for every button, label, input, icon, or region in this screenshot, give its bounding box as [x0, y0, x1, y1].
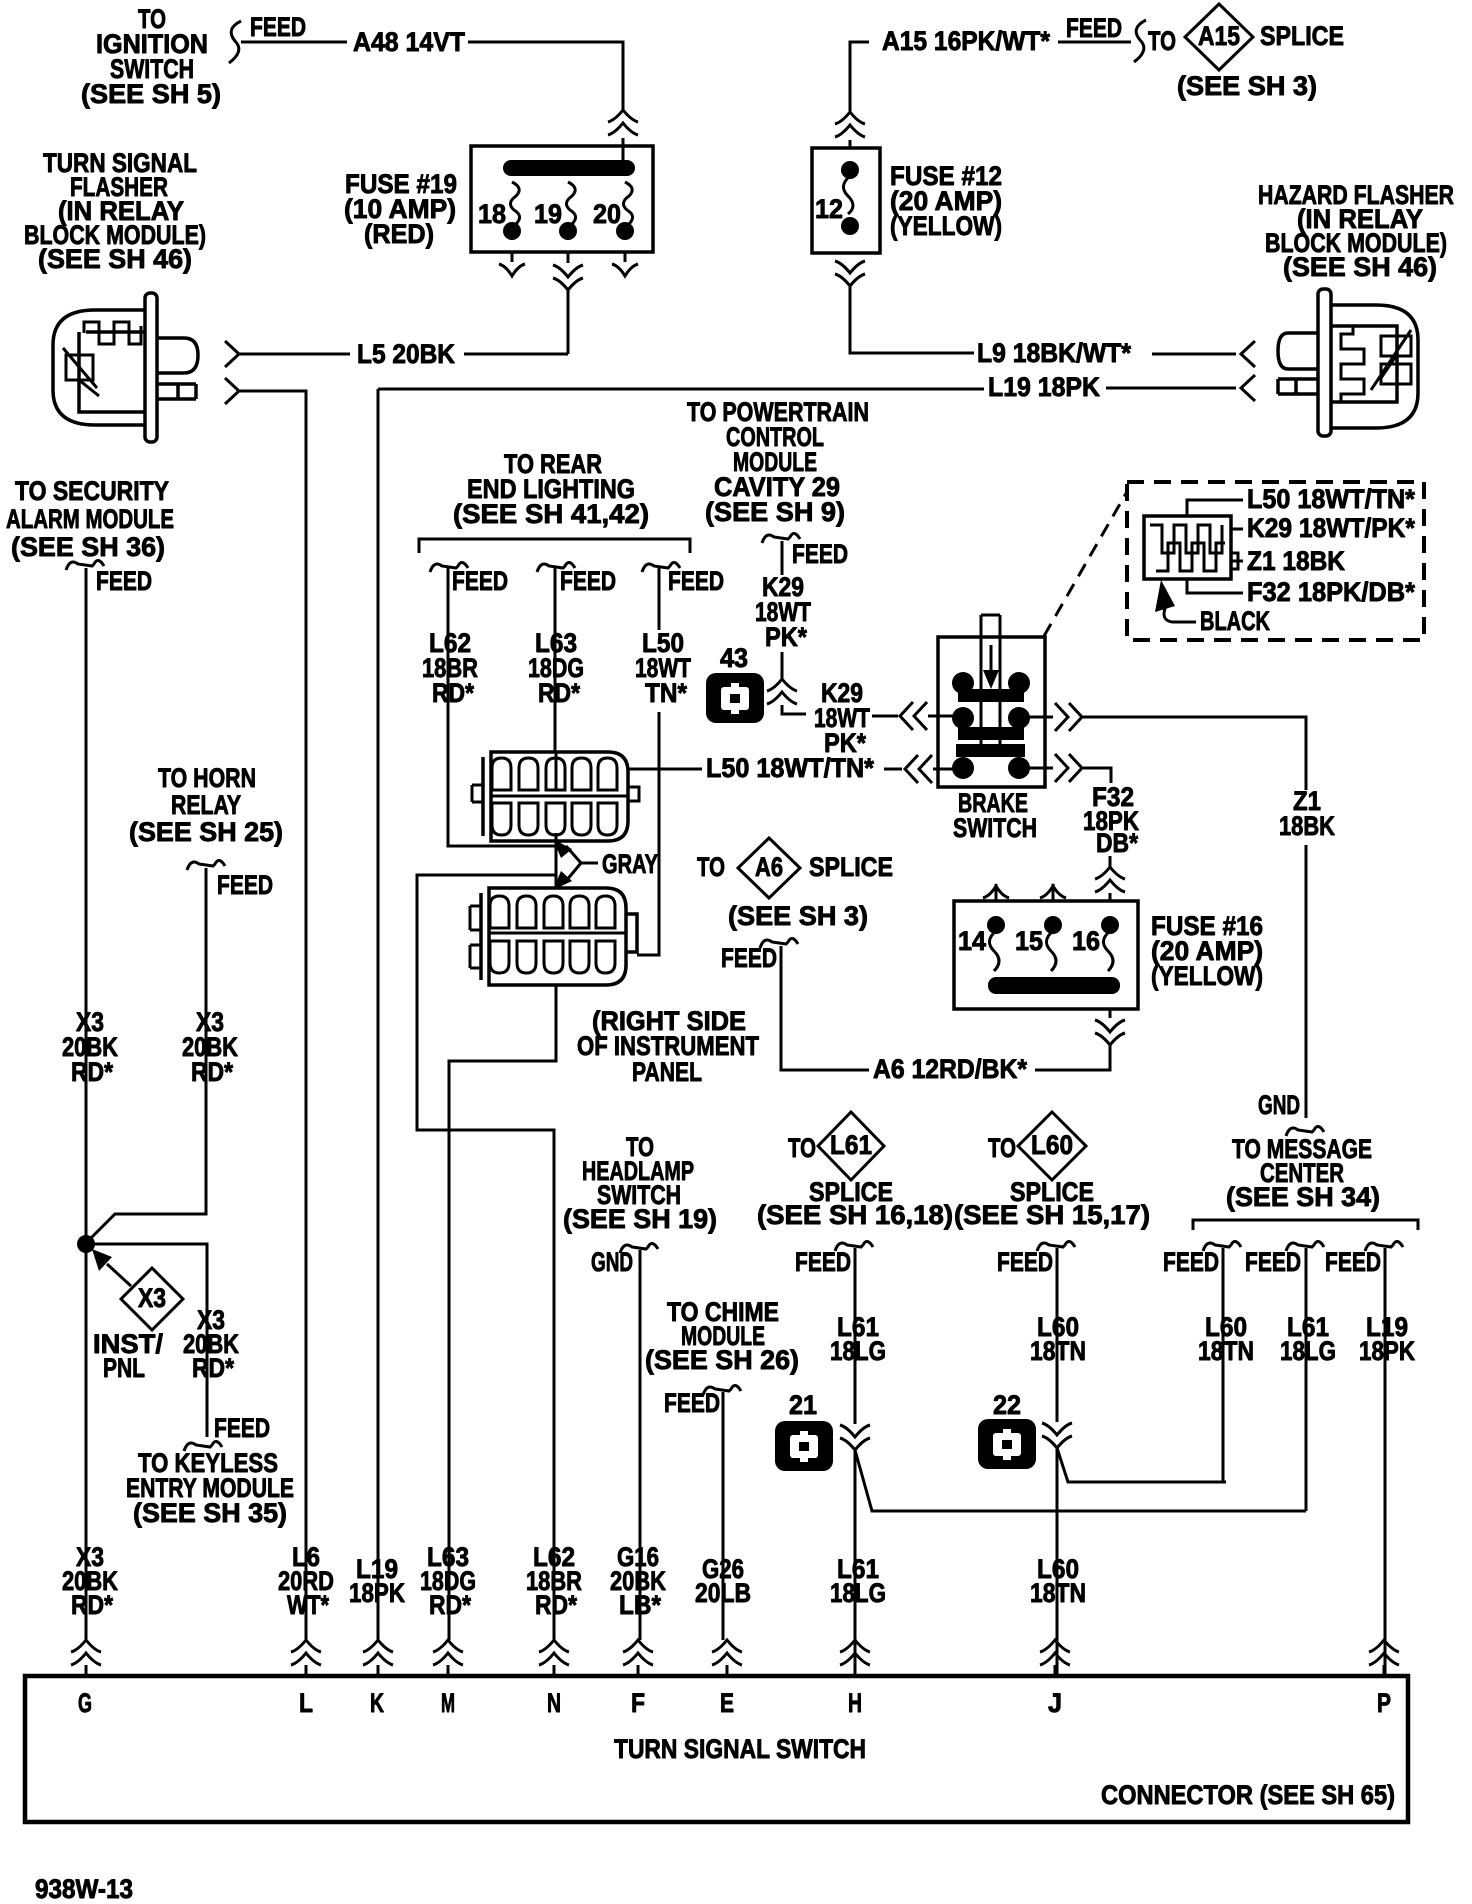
- leg 16 below to A6 wire: [1109, 1009, 1112, 1018]
- bottom wire labels: [62, 1542, 1086, 1620]
- svg-text:SWITCH: SWITCH: [953, 813, 1037, 843]
- svg-text:RD*: RD*: [432, 678, 474, 708]
- wire L62 feed: [448, 568, 556, 846]
- svg-text:WT*: WT*: [287, 1590, 329, 1620]
- svg-text:RD*: RD*: [191, 1057, 233, 1087]
- svg-text:18PK: 18PK: [1359, 1336, 1415, 1366]
- svg-text:FEED: FEED: [1325, 1247, 1381, 1277]
- wire A48 14VT: [241, 27, 623, 162]
- svg-text:22: 22: [993, 1390, 1021, 1420]
- svg-text:TURN SIGNAL SWITCH: TURN SIGNAL SWITCH: [614, 1734, 866, 1764]
- svg-text:G: G: [78, 1688, 92, 1718]
- svg-text:RD*: RD*: [71, 1590, 113, 1620]
- turn signal flasher connector symbol: [53, 293, 198, 442]
- wire A15 16PK/WT*: [850, 13, 1131, 113]
- wire L9 18BK/WT*: [977, 338, 1236, 368]
- svg-text:L19 18PK: L19 18PK: [988, 372, 1100, 402]
- svg-text:18PK: 18PK: [349, 1578, 405, 1608]
- svg-text:938W-13: 938W-13: [35, 1874, 133, 1904]
- svg-text:(SEE SH 36): (SEE SH 36): [11, 532, 165, 562]
- label: TO IGNITION SWITCH (SEE SH 5): [81, 4, 221, 109]
- hazard flasher connector symbol: [1278, 289, 1418, 436]
- svg-text:GRAY: GRAY: [602, 849, 658, 879]
- svg-text:43: 43: [720, 643, 748, 673]
- svg-text:(SEE SH 25): (SEE SH 25): [129, 817, 283, 847]
- fuse 19 element: [566, 182, 575, 224]
- svg-text:FEED: FEED: [997, 1247, 1053, 1277]
- svg-text:A6 12RD/BK*: A6 12RD/BK*: [873, 1054, 1027, 1084]
- wire L63 through C2 down to M: [449, 985, 556, 1640]
- svg-text:18TN: 18TN: [1030, 1578, 1086, 1608]
- leg 18 arrow down: [511, 252, 514, 262]
- arrows into fuse 16 legs 14,15: [995, 884, 998, 901]
- svg-text:N: N: [547, 1688, 561, 1718]
- leg 20 arrow down: [624, 252, 627, 262]
- svg-text:FEED: FEED: [668, 566, 724, 596]
- svg-text:RD*: RD*: [71, 1057, 113, 1087]
- svg-text:FEED: FEED: [217, 870, 273, 900]
- svg-text:L61: L61: [830, 1130, 872, 1160]
- terminal inline connectors: [71, 1640, 101, 1665]
- svg-text:PANEL: PANEL: [632, 1057, 702, 1087]
- svg-text:TO HORN: TO HORN: [158, 763, 256, 793]
- label: (RIGHT SIDE OF INSTRUMENT PANEL: [577, 1006, 759, 1087]
- svg-text:FEED: FEED: [250, 12, 306, 42]
- splice diamond A15: [1177, 4, 1344, 101]
- flasher pin1 half arrow: [225, 341, 239, 367]
- keyless feed: [184, 1441, 222, 1451]
- svg-text:L: L: [299, 1688, 313, 1718]
- svg-text:15: 15: [1015, 926, 1043, 956]
- svg-text:FEED: FEED: [214, 1413, 270, 1443]
- connector C2 (10-way): [470, 888, 637, 985]
- inline connector on A48: [608, 110, 638, 135]
- svg-text:PK*: PK*: [765, 622, 807, 652]
- svg-text:FEED: FEED: [721, 943, 777, 973]
- svg-text:L9 18BK/WT*: L9 18BK/WT*: [977, 338, 1131, 368]
- wire L50 from C1 to brake switch: [628, 753, 902, 783]
- svg-text:(SEE SH 19): (SEE SH 19): [563, 1204, 717, 1234]
- svg-text:(SEE SH 46): (SEE SH 46): [1283, 252, 1437, 282]
- svg-text:(SEE SH 3): (SEE SH 3): [728, 901, 868, 931]
- keyless branch: [86, 1244, 207, 1437]
- svg-text:GND: GND: [1258, 1090, 1300, 1120]
- svg-text:P: P: [1377, 1688, 1391, 1718]
- svg-text:FEED: FEED: [1066, 13, 1122, 43]
- label: FUSE #12 (20 AMP) (YELLOW): [890, 161, 1002, 241]
- svg-text:19: 19: [534, 199, 562, 229]
- svg-text:(YELLOW): (YELLOW): [1151, 961, 1263, 991]
- svg-text:PNL: PNL: [103, 1353, 145, 1383]
- svg-text:(SEE SH 5): (SEE SH 5): [81, 79, 221, 109]
- svg-text:LB*: LB*: [619, 1590, 661, 1620]
- svg-text:E: E: [720, 1688, 734, 1718]
- svg-text:FEED: FEED: [452, 566, 508, 596]
- svg-text:TO: TO: [988, 1133, 1016, 1163]
- svg-text:(RED): (RED): [364, 219, 434, 249]
- svg-text:SPLICE: SPLICE: [809, 852, 893, 882]
- svg-text:18LG: 18LG: [830, 1578, 886, 1608]
- svg-text:18TN: 18TN: [1198, 1336, 1254, 1366]
- svg-text:F32 18PK/DB*: F32 18PK/DB*: [1247, 577, 1415, 607]
- wire between connectors with branch: [417, 752, 556, 1640]
- svg-text:14: 14: [958, 926, 986, 956]
- svg-text:PK*: PK*: [824, 728, 866, 758]
- svg-text:RD*: RD*: [429, 1590, 471, 1620]
- svg-text:FEED: FEED: [1245, 1247, 1301, 1277]
- svg-text:L5 20BK: L5 20BK: [357, 339, 455, 369]
- fuse block #19 box: [471, 146, 653, 252]
- svg-text:CONNECTOR (SEE SH 65): CONNECTOR (SEE SH 65): [1101, 1780, 1395, 1810]
- svg-text:21: 21: [789, 1390, 817, 1420]
- inline connector below fuse 12: [835, 261, 865, 286]
- svg-text:J: J: [1048, 1688, 1062, 1718]
- svg-text:TO: TO: [697, 852, 725, 882]
- svg-text:FEED: FEED: [96, 566, 152, 596]
- svg-text:(SEE SH 15,17): (SEE SH 15,17): [954, 1200, 1150, 1230]
- svg-text:(SEE SH 46): (SEE SH 46): [38, 244, 192, 274]
- fuse #12 box: [812, 148, 880, 253]
- svg-text:(SEE SH 35): (SEE SH 35): [133, 1498, 287, 1528]
- svg-text:18BK: 18BK: [1279, 811, 1335, 841]
- svg-text:FEED: FEED: [560, 566, 616, 596]
- svg-text:ALARM MODULE: ALARM MODULE: [6, 504, 174, 534]
- svg-text:RD*: RD*: [192, 1353, 234, 1383]
- feed hook: [229, 21, 241, 63]
- svg-text:DB*: DB*: [1096, 828, 1138, 858]
- svg-text:Z1 18BK: Z1 18BK: [1247, 546, 1345, 576]
- fuse 20 element: [623, 182, 632, 224]
- svg-text:18LG: 18LG: [830, 1336, 886, 1366]
- bus bar: [503, 160, 635, 176]
- svg-text:18: 18: [478, 199, 506, 229]
- svg-text:(YELLOW): (YELLOW): [890, 211, 1002, 241]
- svg-text:12: 12: [815, 194, 843, 224]
- svg-text:A48 14VT: A48 14VT: [353, 27, 465, 57]
- svg-text:(SEE SH 9): (SEE SH 9): [705, 497, 845, 527]
- leg 19 inline connector, continues to L5: [567, 252, 570, 263]
- svg-text:16: 16: [1072, 926, 1100, 956]
- svg-text:H: H: [848, 1688, 862, 1718]
- wire L6 from flasher to terminal L: [240, 391, 306, 1640]
- svg-text:(SEE SH 16,18): (SEE SH 16,18): [757, 1200, 953, 1230]
- svg-text:SPLICE: SPLICE: [1260, 21, 1344, 51]
- wire L5 20BK: [240, 339, 568, 369]
- wire X3 security: down to junction and terminal G: [85, 568, 88, 1640]
- svg-text:FEED: FEED: [792, 539, 848, 569]
- svg-text:GND: GND: [591, 1247, 633, 1277]
- svg-text:A15: A15: [1198, 21, 1240, 51]
- svg-text:TO SECURITY: TO SECURITY: [15, 476, 169, 506]
- fuse 18 element: [510, 182, 519, 224]
- svg-text:A6: A6: [755, 852, 783, 882]
- svg-text:K: K: [370, 1688, 384, 1718]
- svg-text:(SEE SH 34): (SEE SH 34): [1226, 1182, 1380, 1212]
- splice diamond X3 w/ arrow to junction: [107, 1264, 131, 1286]
- fuse #16 box: [954, 901, 1138, 1009]
- svg-text:FEED: FEED: [664, 1388, 720, 1418]
- label: FUSE #19 (10 AMP) (RED): [344, 169, 457, 249]
- wire L63 feed: [554, 568, 557, 752]
- svg-text:(SEE SH 26): (SEE SH 26): [645, 1345, 799, 1375]
- wire L50 feed: [637, 568, 659, 955]
- svg-text:X3: X3: [138, 1283, 166, 1313]
- GRAY arrows: [553, 839, 658, 890]
- L50 out right to F32: [1019, 767, 1053, 770]
- svg-text:M: M: [441, 1688, 455, 1718]
- svg-text:TO: TO: [788, 1133, 816, 1163]
- svg-text:18TN: 18TN: [1030, 1336, 1086, 1366]
- svg-text:L50 18WT/TN*: L50 18WT/TN*: [1247, 484, 1415, 514]
- svg-text:RD*: RD*: [535, 1590, 577, 1620]
- K29 out right to Z1: [1019, 716, 1053, 719]
- svg-text:FEED: FEED: [795, 1247, 851, 1277]
- svg-text:18LG: 18LG: [1280, 1336, 1336, 1366]
- svg-text:F: F: [631, 1688, 645, 1718]
- svg-text:K29 18WT/PK*: K29 18WT/PK*: [1247, 513, 1415, 543]
- inline connector above fuse 12: [835, 112, 865, 137]
- flasher pin2 half arrow: [225, 378, 239, 404]
- svg-text:RD*: RD*: [538, 678, 580, 708]
- svg-text:20: 20: [593, 199, 621, 229]
- svg-text:20LB: 20LB: [695, 1578, 751, 1608]
- bracket: [419, 539, 690, 553]
- svg-text:BLACK: BLACK: [1200, 606, 1270, 636]
- junction dot X3 splice: [77, 1235, 95, 1253]
- svg-text:TN*: TN*: [645, 678, 687, 708]
- connector C1 (10-way): [472, 752, 639, 841]
- label: TURN SIGNAL FLASHER (IN RELAY BLOCK MODULE) (SEE SH 46): [24, 148, 206, 274]
- svg-text:FEED: FEED: [1163, 1247, 1219, 1277]
- svg-text:(SEE SH 3): (SEE SH 3): [1177, 71, 1317, 101]
- svg-text:RELAY: RELAY: [171, 790, 241, 820]
- svg-text:TO: TO: [1148, 26, 1176, 56]
- svg-text:A15 16PK/WT*: A15 16PK/WT*: [882, 26, 1050, 56]
- svg-text:L60: L60: [1031, 1130, 1073, 1160]
- svg-text:(SEE SH 41,42): (SEE SH 41,42): [453, 499, 649, 529]
